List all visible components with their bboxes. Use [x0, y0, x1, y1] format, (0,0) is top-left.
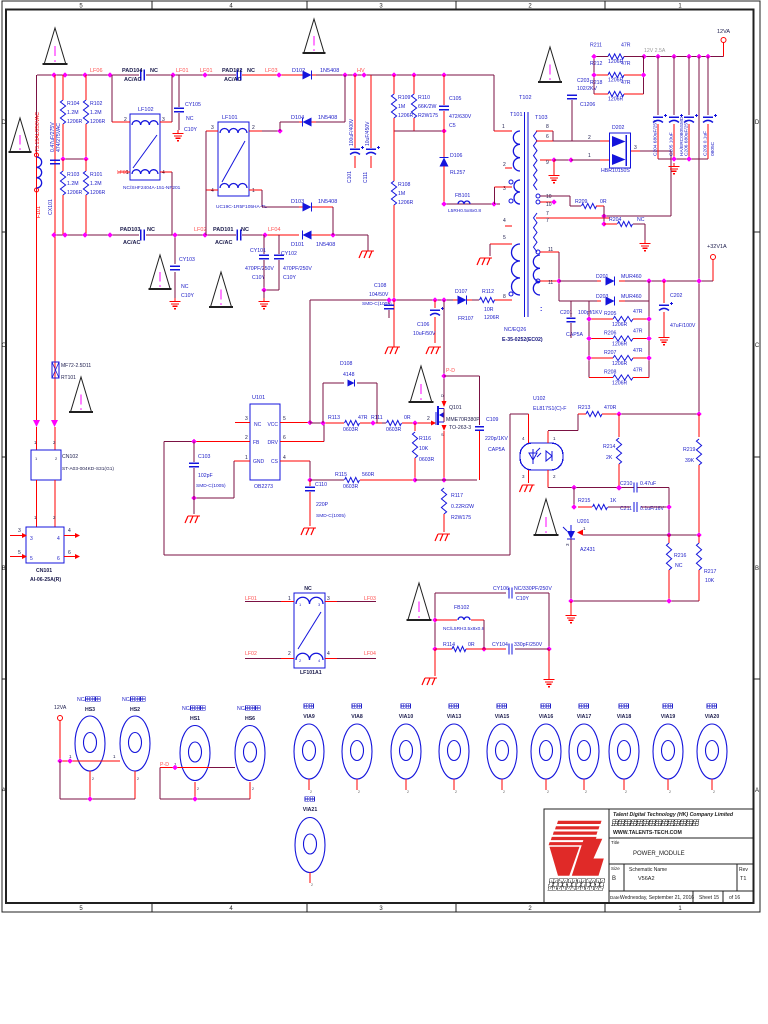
svg-text:R205: R205 [604, 311, 617, 317]
svg-text:6: 6 [546, 134, 549, 140]
svg-text:1K: 1K [610, 498, 617, 504]
svg-text:R208: R208 [604, 370, 617, 376]
svg-text:CAP5A: CAP5A [566, 332, 584, 338]
svg-text:1206R: 1206R [398, 113, 414, 119]
svg-text:1206R: 1206R [612, 381, 628, 387]
svg-text:2: 2 [547, 790, 549, 794]
svg-text:LF04: LF04 [364, 651, 376, 657]
svg-text:R108: R108 [398, 182, 411, 188]
svg-text:2: 2 [427, 416, 430, 422]
svg-text:2K: 2K [606, 455, 613, 461]
svg-text:C203: C203 [577, 78, 590, 84]
svg-text:NC/330PF/250V: NC/330PF/250V [514, 586, 552, 592]
svg-text:R102: R102 [90, 101, 103, 107]
svg-text:NC: NC [186, 116, 194, 122]
svg-text:C204 680uF/25V: C204 680uF/25V [653, 119, 659, 156]
svg-text:1206R: 1206R [484, 315, 500, 321]
svg-text:10R: 10R [484, 307, 494, 313]
svg-text:R101: R101 [90, 172, 103, 178]
svg-text:7: 7 [546, 211, 549, 217]
svg-text:3: 3 [211, 125, 214, 131]
svg-text:2: 2 [713, 790, 715, 794]
svg-text:4: 4 [57, 536, 60, 542]
svg-text:LF01: LF01 [200, 68, 213, 74]
svg-text:1.2M: 1.2M [90, 110, 102, 116]
svg-text:R103: R103 [67, 172, 80, 178]
svg-text:NC: NC [254, 422, 262, 428]
svg-text:4148: 4148 [343, 372, 355, 378]
svg-text:T101: T101 [510, 112, 523, 118]
svg-text:MUR460: MUR460 [621, 294, 642, 300]
svg-text:Rev: Rev [739, 867, 748, 873]
svg-text:FB101: FB101 [455, 193, 470, 199]
svg-text:2: 2 [252, 787, 254, 791]
svg-text:LF101: LF101 [222, 115, 238, 121]
svg-text:CY104: CY104 [492, 642, 508, 648]
svg-text:47R: 47R [621, 80, 631, 86]
svg-text:NC/L5RH3.5x8x0.8: NC/L5RH3.5x8x0.8 [443, 626, 485, 632]
svg-text:6: 6 [68, 550, 71, 556]
svg-text:0R: 0R [468, 642, 475, 648]
svg-text:7: 7 [546, 218, 549, 224]
svg-text:0603R: 0603R [343, 484, 359, 490]
svg-text:C210: C210 [620, 481, 633, 487]
svg-text:R215: R215 [578, 498, 591, 504]
svg-text:R216: R216 [674, 553, 687, 559]
svg-text:R204: R204 [609, 217, 622, 223]
svg-text:2: 2 [625, 790, 627, 794]
svg-text:2: 2 [245, 435, 248, 441]
svg-text:6: 6 [57, 556, 60, 562]
svg-text:C209 0.1uF: C209 0.1uF [703, 131, 709, 156]
svg-text:D107: D107 [455, 289, 468, 295]
svg-text:Wednesday, September 21, 2016: Wednesday, September 21, 2016 [620, 895, 694, 901]
svg-text:12V 2.5A: 12V 2.5A [644, 48, 666, 54]
svg-text:0603R: 0603R [343, 427, 359, 433]
svg-text:47R: 47R [633, 309, 643, 315]
svg-text:V56A2: V56A2 [638, 876, 655, 882]
svg-text:NC: NC [247, 68, 255, 74]
svg-text:T102: T102 [519, 95, 532, 101]
svg-text:VIA16: VIA16 [539, 714, 554, 720]
svg-text:220p/1KV: 220p/1KV [485, 436, 508, 442]
svg-text:U102: U102 [533, 396, 546, 402]
svg-text:NC: NC [637, 217, 645, 223]
svg-text:R112: R112 [482, 289, 494, 295]
svg-text:FR107: FR107 [458, 316, 474, 322]
svg-text:11: 11 [548, 247, 553, 253]
svg-text:4: 4 [327, 651, 330, 657]
svg-text:NC: NC [304, 586, 312, 592]
svg-text:D101: D101 [291, 242, 304, 248]
svg-text:R211: R211 [590, 43, 602, 49]
svg-text:66K/2W: 66K/2W [418, 104, 437, 110]
svg-text:VIA21: VIA21 [303, 807, 318, 813]
svg-text:ST-A03-004KD-S31(G1): ST-A03-004KD-S31(G1) [62, 466, 114, 472]
svg-text:T103: T103 [535, 115, 548, 121]
svg-text:2: 2 [92, 777, 94, 781]
svg-text:of 16: of 16 [729, 895, 740, 901]
svg-text:10: 10 [546, 202, 552, 208]
svg-text:470PF/250V: 470PF/250V [245, 266, 274, 272]
svg-text:NC/EQ26: NC/EQ26 [504, 327, 526, 333]
svg-text:B: B [612, 876, 616, 882]
svg-text:PAD103: PAD103 [120, 227, 140, 233]
svg-text:U101: U101 [252, 395, 265, 401]
svg-text:R214: R214 [603, 444, 616, 450]
svg-text:1N5408: 1N5408 [318, 199, 337, 205]
svg-text:HS3: HS3 [85, 707, 95, 713]
svg-text:HV: HV [357, 68, 365, 74]
svg-text:2: 2 [455, 790, 457, 794]
svg-text:NC/: NC/ [182, 706, 191, 712]
svg-text:R2W175: R2W175 [418, 113, 438, 119]
svg-text:1: 1 [502, 124, 505, 130]
svg-text:D: D [441, 394, 444, 398]
svg-text:T1: T1 [740, 876, 746, 882]
svg-text:0805C: 0805C [710, 141, 716, 156]
svg-text:R115: R115 [335, 472, 347, 478]
svg-text:1206R: 1206R [612, 322, 628, 328]
svg-text:1206R: 1206R [612, 342, 628, 348]
svg-text:VIA18: VIA18 [617, 714, 632, 720]
svg-text:LF04: LF04 [268, 227, 281, 233]
svg-text:C101: C101 [347, 171, 353, 183]
svg-text:10uF/450V: 10uF/450V [365, 121, 371, 146]
svg-text:MME70R380P: MME70R380P [446, 417, 480, 423]
svg-text:NC: NC [181, 284, 189, 290]
svg-text:EL817S1(C)-F: EL817S1(C)-F [533, 406, 566, 412]
svg-text:AZ431: AZ431 [580, 547, 595, 553]
svg-text:D108: D108 [340, 361, 353, 367]
svg-text:2: 2 [503, 162, 506, 168]
svg-text:R2W175: R2W175 [451, 515, 471, 521]
svg-text:47R: 47R [633, 368, 643, 374]
svg-text:1.2M: 1.2M [67, 110, 79, 116]
svg-text:VCC: VCC [267, 422, 278, 428]
svg-text:1M: 1M [398, 104, 405, 110]
svg-text:1: 1 [245, 455, 248, 461]
svg-text:1206R: 1206R [398, 200, 414, 206]
svg-text:C109: C109 [486, 417, 499, 423]
svg-text::: : [540, 306, 542, 313]
svg-text:C110: C110 [315, 482, 327, 488]
svg-text:2: 2 [407, 790, 409, 794]
svg-text:4: 4 [68, 528, 71, 534]
svg-text:12VA: 12VA [54, 705, 67, 711]
svg-text:RL257: RL257 [450, 170, 465, 176]
svg-text:4: 4 [162, 170, 165, 176]
svg-text:47R: 47R [633, 348, 643, 354]
svg-text:3: 3 [634, 145, 637, 151]
svg-text:HA/ERC0805SMD: HA/ERC0805SMD [679, 116, 685, 156]
svg-text:FB: FB [253, 440, 260, 446]
svg-text:UC19C-1R5F105HA-TL: UC19C-1R5F105HA-TL [216, 204, 267, 210]
svg-text:3: 3 [18, 528, 21, 534]
svg-text:HS6: HS6 [245, 716, 255, 722]
svg-text:R213: R213 [578, 405, 591, 411]
svg-text:Q101: Q101 [449, 405, 462, 411]
svg-text:10uF/50V: 10uF/50V [413, 331, 436, 337]
svg-text:LF06: LF06 [90, 68, 103, 74]
svg-text:102pF: 102pF [198, 473, 213, 479]
svg-text:2: 2 [197, 787, 199, 791]
svg-text:OB2273: OB2273 [254, 484, 273, 490]
svg-text:2: 2 [252, 125, 255, 131]
svg-text:MUR460: MUR460 [621, 274, 642, 280]
svg-text:0603R: 0603R [419, 457, 435, 463]
svg-text:SMD-C(1005): SMD-C(1005) [316, 513, 346, 519]
svg-text:R217: R217 [704, 569, 717, 575]
svg-text:+32V1A: +32V1A [707, 244, 727, 250]
svg-text:5: 5 [18, 550, 21, 556]
svg-text:VIA19: VIA19 [661, 714, 676, 720]
svg-text:F101: F101 [36, 206, 42, 218]
svg-text:B: B [755, 566, 759, 572]
svg-text:1206R: 1206R [90, 190, 106, 196]
svg-text:R114: R114 [443, 642, 455, 648]
svg-text:CN101: CN101 [36, 568, 52, 574]
svg-text:1206R: 1206R [608, 97, 624, 103]
svg-text:1: 1 [588, 153, 591, 159]
svg-text:47R: 47R [633, 329, 643, 335]
svg-text:C10Y: C10Y [516, 596, 530, 602]
svg-text:C205 10uF: C205 10uF [669, 132, 675, 156]
svg-text:A: A [2, 788, 6, 794]
svg-text:1N5408: 1N5408 [320, 68, 339, 74]
svg-text:POWER_MODULE: POWER_MODULE [633, 851, 685, 857]
svg-text:2: 2 [288, 651, 291, 657]
svg-text:47R: 47R [621, 61, 631, 67]
svg-text:47uF/100V: 47uF/100V [670, 323, 696, 329]
svg-text:FB102: FB102 [454, 605, 469, 611]
svg-text:0R: 0R [404, 415, 411, 421]
svg-text:Talent Digital Technology (HK): Talent Digital Technology (HK) Company L… [613, 812, 734, 818]
svg-text:1206R: 1206R [67, 190, 83, 196]
svg-text:LF102: LF102 [138, 107, 154, 113]
svg-text:C202: C202 [670, 293, 683, 299]
svg-text:1M: 1M [398, 191, 405, 197]
svg-text:2: 2 [310, 790, 312, 794]
svg-text:100pf/1KV: 100pf/1KV [578, 310, 603, 316]
svg-text:R110: R110 [418, 95, 430, 101]
svg-text:P-D: P-D [446, 368, 455, 374]
svg-text:CY101: CY101 [250, 248, 266, 254]
svg-text:NC/: NC/ [237, 706, 246, 712]
svg-text:8: 8 [546, 124, 549, 130]
svg-text:R104: R104 [67, 101, 80, 107]
svg-text:10: 10 [546, 194, 552, 200]
svg-text:NC: NC [675, 563, 683, 569]
svg-text:D201: D201 [596, 274, 609, 280]
svg-text:D106: D106 [450, 153, 463, 159]
svg-text:4: 4 [503, 218, 506, 224]
svg-text:10K: 10K [419, 446, 429, 452]
svg-text:LF02: LF02 [245, 651, 257, 657]
svg-text:2: 2 [669, 790, 671, 794]
svg-text:PAD101: PAD101 [213, 227, 233, 233]
svg-text:47R: 47R [358, 415, 368, 421]
svg-text:LF101A1: LF101A1 [300, 670, 322, 676]
svg-text:12VA: 12VA [717, 29, 730, 35]
svg-text:47R: 47R [621, 43, 631, 49]
svg-text:T3.15AL/250VAC: T3.15AL/250VAC [35, 112, 41, 152]
svg-text:R207: R207 [604, 350, 617, 356]
svg-text:C111: C111 [363, 172, 369, 183]
svg-text:3: 3 [30, 536, 33, 542]
svg-text:R116: R116 [419, 436, 431, 442]
svg-text:SMD-C(1005): SMD-C(1005) [362, 301, 392, 307]
svg-text:SMD-C(1005): SMD-C(1005) [196, 483, 226, 489]
svg-text:R113: R113 [328, 415, 340, 421]
svg-text:1206R: 1206R [67, 119, 83, 125]
svg-text:VIA8: VIA8 [351, 714, 363, 720]
svg-text:HBR10150S: HBR10150S [601, 168, 630, 174]
svg-text:D203: D203 [596, 294, 609, 300]
svg-text:MF72-2.5D11: MF72-2.5D11 [61, 363, 91, 369]
svg-text:TO-263-3: TO-263-3 [449, 425, 471, 431]
svg-text:DRV: DRV [268, 440, 279, 446]
svg-text:C10Y: C10Y [184, 127, 198, 133]
svg-text:D103: D103 [291, 199, 304, 205]
svg-text:C10Y: C10Y [252, 275, 266, 281]
svg-text:Sheet 15: Sheet 15 [699, 895, 719, 901]
svg-text:LF01: LF01 [176, 68, 189, 74]
svg-text:470R: 470R [604, 405, 617, 411]
svg-text:C105: C105 [449, 96, 462, 102]
svg-text:R109: R109 [398, 95, 411, 101]
svg-text:B: B [2, 566, 6, 572]
svg-text:NC: NC [241, 227, 249, 233]
svg-text:D: D [2, 120, 7, 126]
svg-text:1.2M: 1.2M [67, 181, 79, 187]
svg-text:AI-06-25A(R): AI-06-25A(R) [30, 577, 61, 583]
svg-text:WWW.TALENTS-TECH.COM: WWW.TALENTS-TECH.COM [613, 830, 682, 836]
svg-text:PAD104: PAD104 [122, 68, 143, 74]
svg-text:RT101: RT101 [61, 375, 76, 381]
svg-text:2: 2 [358, 790, 360, 794]
svg-text:1: 1 [252, 188, 255, 194]
svg-text:4: 4 [283, 455, 286, 461]
svg-text:E-35-0252(EC02): E-35-0252(EC02) [502, 337, 543, 343]
svg-text:104/50V: 104/50V [369, 292, 389, 298]
svg-text:VIA15: VIA15 [495, 714, 510, 720]
svg-text:D104: D104 [291, 115, 304, 121]
svg-text:220P: 220P [316, 502, 329, 508]
svg-text:U201: U201 [577, 519, 590, 525]
svg-text:Size: Size [611, 866, 620, 871]
svg-text:R206: R206 [604, 331, 617, 337]
svg-text:NC/: NC/ [77, 697, 86, 703]
svg-text:D: D [755, 120, 760, 126]
svg-text:C108: C108 [374, 283, 387, 289]
svg-text:CN102: CN102 [62, 454, 78, 460]
svg-text:1.2M: 1.2M [90, 181, 102, 187]
svg-text:PAD102: PAD102 [222, 68, 242, 74]
svg-text:AC/AC: AC/AC [124, 77, 141, 83]
svg-text:C106: C106 [417, 322, 430, 328]
svg-text:2: 2 [585, 790, 587, 794]
svg-text:CY103: CY103 [179, 257, 195, 263]
svg-text:0R: 0R [600, 199, 607, 205]
svg-text:CY102: CY102 [281, 251, 297, 257]
svg-text:VIA17: VIA17 [577, 714, 592, 720]
svg-text:R117: R117 [451, 493, 463, 499]
svg-text:8: 8 [503, 294, 506, 300]
svg-text:39K: 39K [685, 458, 695, 464]
svg-text:5: 5 [503, 235, 506, 241]
svg-text:LF02: LF02 [194, 227, 207, 233]
svg-text:VIA9: VIA9 [303, 714, 315, 720]
svg-text:CAP5A: CAP5A [488, 447, 506, 453]
svg-text:VIA10: VIA10 [399, 714, 414, 720]
svg-text:C1206: C1206 [580, 102, 595, 108]
svg-text:LF03: LF03 [265, 68, 278, 74]
svg-text:AC/AC: AC/AC [215, 240, 232, 246]
svg-text:472/630V: 472/630V [449, 114, 472, 120]
svg-text:NC: NC [150, 68, 158, 74]
svg-text:R219: R219 [683, 447, 696, 453]
svg-text:HS2: HS2 [130, 707, 140, 713]
svg-text:AC/AC: AC/AC [123, 240, 140, 246]
svg-text:Schematic Name: Schematic Name [629, 867, 667, 873]
svg-text:1206R: 1206R [612, 361, 628, 367]
svg-text:10K: 10K [705, 578, 715, 584]
svg-text:9: 9 [546, 160, 549, 166]
svg-text:5: 5 [30, 556, 33, 562]
svg-text:A: A [755, 788, 759, 794]
svg-text:1N5408: 1N5408 [316, 242, 335, 248]
svg-text:R209: R209 [575, 199, 588, 205]
svg-text:D202: D202 [612, 125, 625, 131]
svg-text:R212: R212 [590, 61, 603, 67]
svg-text:0.47uF: 0.47uF [640, 481, 656, 487]
svg-text:NC/SHF2404A-151-NF201: NC/SHF2404A-151-NF201 [123, 185, 181, 191]
svg-text:2: 2 [503, 790, 505, 794]
svg-text:C10Y: C10Y [283, 275, 297, 281]
svg-text:NC/: NC/ [122, 697, 131, 703]
svg-text:CS: CS [271, 459, 279, 465]
svg-text:Title: Title [611, 840, 620, 845]
svg-text:474/275VAC: 474/275VAC [56, 123, 62, 152]
svg-text:AC/AC: AC/AC [224, 77, 241, 83]
svg-text:CY106: CY106 [493, 586, 509, 592]
svg-text:CY105: CY105 [185, 102, 201, 108]
svg-text:C: C [2, 343, 7, 349]
svg-text:L5RH0.5x8x0.8: L5RH0.5x8x0.8 [448, 208, 481, 214]
svg-text:VIA13: VIA13 [447, 714, 462, 720]
svg-text:6: 6 [283, 435, 286, 441]
svg-text:2: 2 [311, 883, 313, 887]
svg-text:100uF/400V: 100uF/400V [349, 118, 355, 146]
svg-text:HS1: HS1 [190, 716, 200, 722]
svg-text:CX101: CX101 [48, 199, 54, 215]
svg-text:C5: C5 [449, 123, 456, 129]
svg-text:D102: D102 [292, 68, 305, 74]
svg-text:560R: 560R [362, 472, 375, 478]
svg-text:R218: R218 [590, 80, 603, 86]
svg-text:GND: GND [253, 459, 265, 465]
svg-text:C103: C103 [198, 454, 211, 460]
svg-text:2: 2 [588, 135, 591, 141]
svg-text:11: 11 [548, 280, 553, 286]
svg-text:1: 1 [126, 170, 129, 176]
svg-text:470PF/250V: 470PF/250V [283, 266, 312, 272]
svg-text:1206R: 1206R [90, 119, 106, 125]
svg-text:C: C [755, 343, 760, 349]
svg-text:330pF/250V: 330pF/250V [514, 642, 543, 648]
svg-text:0.22R/2W: 0.22R/2W [451, 504, 474, 510]
